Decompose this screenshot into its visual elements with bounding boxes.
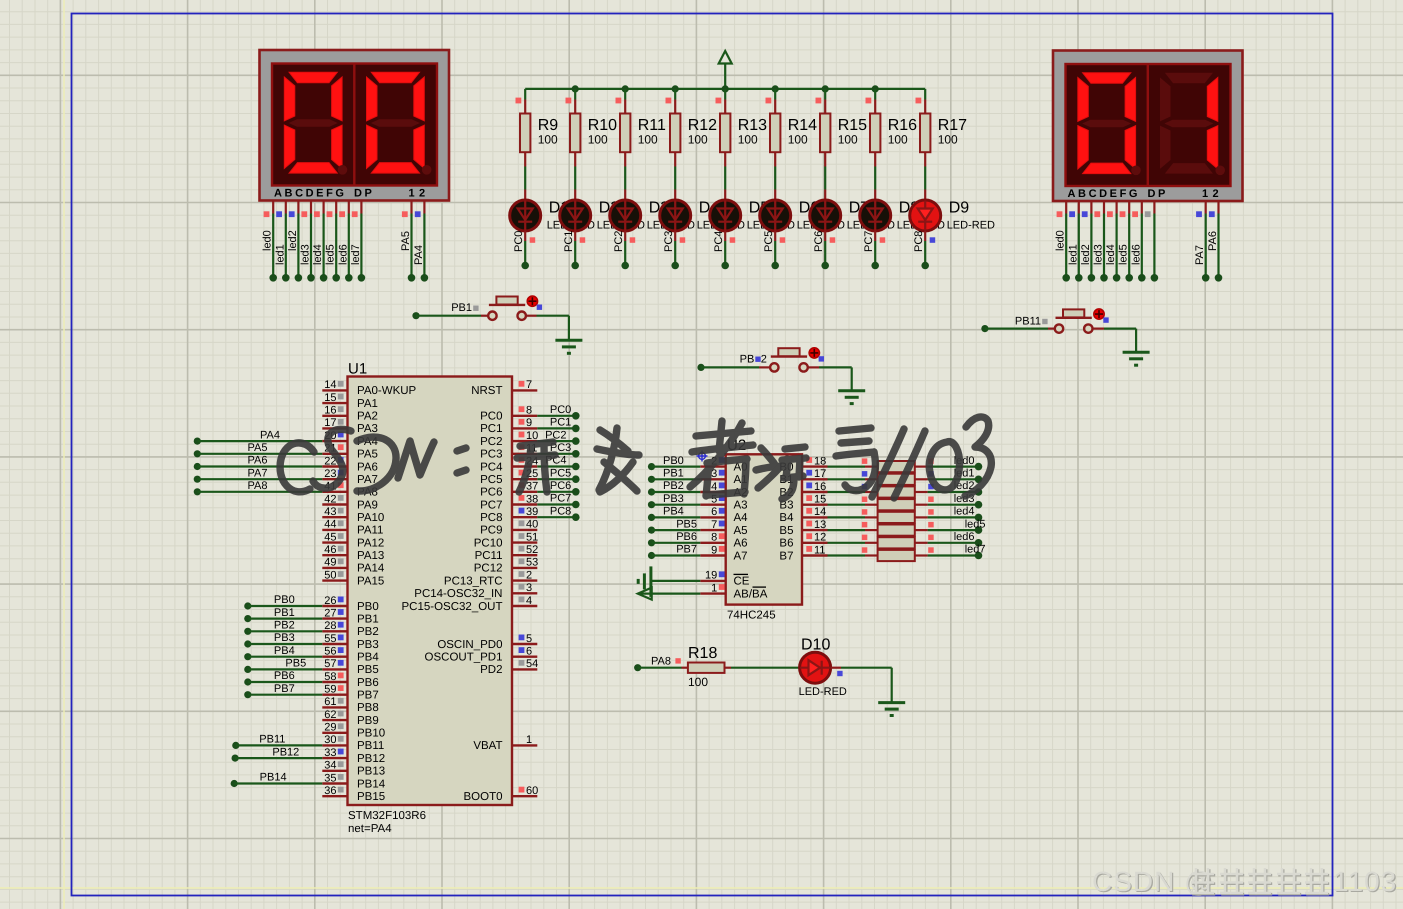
svg-text:PA11: PA11 [357,525,383,537]
svg-text:17: 17 [814,468,826,480]
svg-text:42: 42 [324,493,336,505]
svg-text:100: 100 [588,133,608,147]
wire LED D9 cathode to terminal PC8 [913,231,935,270]
wire button 2 to ground [807,367,851,390]
svg-text:PC7: PC7 [863,231,875,252]
svg-text:9: 9 [711,544,717,556]
resistor R16 100 [866,89,918,167]
wire DS2 pin 9 (PA7) [1194,201,1209,282]
wire U2 A3 to net PB3 [648,493,700,508]
U1 pin 27 (PB1) [322,607,378,625]
svg-text:8: 8 [711,532,717,544]
U1 pin 57 (PB5) [322,658,378,676]
svg-text:led4: led4 [954,506,975,518]
svg-text:28: 28 [324,620,336,632]
wire DS2 pin 10 (PA6) [1207,201,1222,282]
U2 pin 15 (B3) [779,494,827,512]
svg-text:ABCDEFG: ABCDEFG [1068,188,1141,200]
svg-text:led5: led5 [325,244,337,265]
svg-text:led7: led7 [350,244,362,265]
svg-text:2: 2 [761,354,767,366]
U2 pin 5 (A3) [700,494,747,512]
U1 pin 14 (PA0-WKUP) [322,379,416,397]
svg-text:100: 100 [638,133,658,147]
label for LED D4 [697,200,745,232]
U1 pin 25 (PC5) [480,468,538,486]
U1 pin 58 (PB6) [322,671,378,689]
svg-text:PC8: PC8 [480,512,502,524]
svg-text:PB2: PB2 [274,620,295,632]
wire DS2 pin 5 (led4) [1105,201,1120,282]
svg-text:PB6: PB6 [676,531,697,543]
svg-text:PC8: PC8 [550,505,571,517]
resistor (series B0-led0) [828,458,928,472]
wire resistor to terminal led6 [928,531,983,547]
U1 pin 61 (PB8) [322,696,378,714]
wire terminal PA8 to R18 [634,656,681,672]
svg-text:PA8: PA8 [248,480,268,492]
wire LED D4 cathode to terminal PC3 [663,231,685,270]
LED D5 LED-RED [710,167,741,232]
wire U1 PC8 to terminal [537,505,579,521]
U1 pin 24 (PC4) [480,455,538,473]
wire U1 PB0 to terminal [244,594,322,609]
svg-text:led0: led0 [1055,230,1067,251]
U1 pin 35 (PB14) [322,772,385,790]
svg-text:PB6: PB6 [357,677,379,689]
wire DS1 pin 3 (led2) [287,201,302,282]
svg-text:NRST: NRST [471,385,502,397]
svg-text:U1: U1 [348,361,367,378]
svg-text:PA6: PA6 [1207,231,1219,251]
svg-text:R9: R9 [538,117,559,134]
U1 pin 8 (PC0) [480,405,537,423]
svg-text:VBAT: VBAT [473,740,502,752]
svg-text:BOOT0: BOOT0 [464,791,503,803]
LED D8 LED-RED [860,167,891,232]
U1 pin 15 (PA1) [322,392,378,410]
wire U2 A2 to net PB2 [648,480,700,495]
svg-text:74HC245: 74HC245 [727,610,776,622]
wire to push button 3 (net PB11) [981,325,1055,332]
wire DS1 pin 1 (led0) [262,201,277,282]
U2 pin 4 (A2) [700,481,747,499]
U1 pin 41 (PA8) [322,481,378,499]
U1 pin 62 (PB9) [322,709,378,727]
U2 pin 9 (A7) [700,544,747,562]
wire VCC rail [525,88,925,90]
U2 pin 6 (A4) [700,506,748,524]
LED D10 LED-RED (lit) [799,637,847,699]
U1 pin 51 (PC10) [474,531,539,549]
svg-text:PB2: PB2 [663,480,684,492]
svg-text:PC4: PC4 [480,461,503,473]
label for LED D3 [647,200,695,232]
U1 pin 16 (PA2) [322,405,378,423]
svg-text:15: 15 [324,392,336,404]
svg-text:PA1: PA1 [357,398,378,410]
resistor (series B2-led2) [828,484,928,498]
svg-text:62: 62 [324,709,336,721]
wire DS1 pin 8 (led7) [350,201,365,282]
U1 pin 60 (BOOT0) [464,785,539,803]
svg-text:OSCOUT_PD1: OSCOUT_PD1 [425,652,503,664]
LED D4 LED-RED [660,167,691,232]
svg-text:PB1: PB1 [274,607,295,619]
svg-text:PB7: PB7 [274,683,295,695]
svg-text:16: 16 [814,481,826,493]
wire resistor to terminal led0 [928,455,983,471]
wire DS2 pin 2 (led1) [1067,201,1082,282]
svg-text:14: 14 [814,506,826,518]
wire LED D8 cathode to terminal PC7 [863,231,885,270]
U1 pin 22 (PA6) [322,455,378,473]
svg-text:54: 54 [526,658,538,670]
wire LED D7 cathode to terminal PC6 [813,231,835,270]
resistor (series B6-led6) [828,535,928,549]
U1 pin 21 (PA5) [322,443,378,461]
svg-text:LED-RED: LED-RED [947,220,995,232]
svg-text:PA4: PA4 [413,245,425,265]
svg-text:PB: PB [740,354,755,366]
wire U2 A0 to net PB0 [648,455,700,470]
svg-text:PB1: PB1 [357,613,379,625]
wire U1 PA6 to terminal [194,455,323,470]
resistor R11 100 [616,89,666,167]
resistor (series B1-led1) [828,471,928,485]
wire U1 PC6 to terminal [537,480,579,496]
U1 pin 40 (PC9) [480,519,538,537]
U1 pin 53 (PC12) [474,557,539,575]
label for LED D8 [897,200,945,232]
resistor R18 100 [682,645,732,689]
U1 pin 10 (PC2) [480,430,538,448]
U2 pin 7 (A5) [700,519,747,537]
svg-text:1: 1 [711,582,717,594]
svg-text:led4: led4 [1105,244,1117,265]
wire U1 PB7 to terminal [244,683,322,698]
svg-text:PB5: PB5 [357,664,379,676]
resistor R10 100 [566,89,618,167]
svg-text:STM32F103R6: STM32F103R6 [348,810,426,822]
svg-text:led2: led2 [1080,244,1092,265]
wire U1 PB6 to terminal [244,670,322,685]
svg-text:57: 57 [324,658,336,670]
svg-text:PB5: PB5 [285,658,306,670]
svg-text:45: 45 [324,531,336,543]
svg-text:1: 1 [526,734,532,746]
svg-text:PC7: PC7 [480,499,502,511]
svg-text:PB15: PB15 [357,791,385,803]
svg-text:33: 33 [324,747,336,759]
svg-text:PB3: PB3 [663,493,684,505]
svg-text:18: 18 [814,455,826,467]
svg-text:PC3: PC3 [480,449,502,461]
U1 pin 9 (PC1) [480,417,537,435]
U1 pin 7 (NRST) [471,379,537,397]
svg-text:2: 2 [526,569,532,581]
svg-text:PB12: PB12 [272,746,299,758]
wire LED D5 cathode to terminal PC4 [713,231,735,270]
svg-text:DP: DP [1148,188,1168,200]
svg-text:A5: A5 [734,525,748,537]
label for LED D9 [947,200,995,232]
svg-text:led6: led6 [1130,244,1142,265]
svg-text:CE: CE [734,576,750,588]
U1 pin 46 (PA13) [322,544,384,562]
svg-text:100: 100 [738,133,758,147]
U1 pin 55 (PB3) [322,633,378,651]
svg-text:PA8: PA8 [651,656,671,668]
U1 pin 52 (PC11) [475,544,539,562]
junction node on VCC rail [622,85,629,92]
U1 pin 54 (PD2) [480,658,538,676]
wire U1 PC3 to terminal [537,442,579,458]
svg-text:PB11: PB11 [1015,316,1041,328]
svg-text:6: 6 [526,646,532,658]
svg-text:D9: D9 [949,200,970,217]
wire LED D2 cathode to terminal PC1 [563,231,585,270]
svg-text:60: 60 [526,785,538,797]
U1 pin 34 (PB13) [322,760,385,778]
svg-text:2: 2 [1213,188,1219,200]
svg-text:39: 39 [526,506,538,518]
svg-text:2: 2 [419,188,425,200]
svg-text:PC12: PC12 [474,563,503,575]
wire resistor to terminal led1 [928,468,983,484]
wire DS2 pin 3 (led2) [1080,201,1095,282]
wire U1 PC2 to terminal [537,429,579,445]
svg-text:PA7: PA7 [1194,245,1206,265]
U1 pin 23 (PA7) [322,468,378,486]
U2 pin 13 (B5) [779,519,827,537]
svg-text:6: 6 [711,506,717,518]
LED D1 LED-RED [510,167,541,232]
svg-text:R13: R13 [738,117,767,134]
svg-text:PB8: PB8 [357,702,379,714]
wire U1 PB3 to terminal [244,632,322,647]
U1 pin 2 (PC13_RTC) [444,569,537,587]
svg-text:53: 53 [526,557,538,569]
svg-text:30: 30 [324,734,336,746]
LED D3 LED-RED [610,167,641,232]
U1 pin 4 (PC15-OSC32_OUT) [402,595,538,613]
svg-text:PB1: PB1 [663,468,684,480]
wire button 3 to ground [1092,329,1136,353]
svg-text:10: 10 [526,430,538,442]
svg-text:PB11: PB11 [259,734,285,746]
svg-text:led5: led5 [965,518,986,530]
wire U1 PB14 to terminal [231,772,323,787]
wire DS1 pin 6 (led5) [325,201,340,282]
svg-text:16: 16 [324,405,336,417]
svg-text:PA14: PA14 [357,563,385,575]
svg-text:61: 61 [324,696,336,708]
wire DS2 pin 8 (nc) [1145,201,1158,282]
U1 pin 56 (PB4) [322,646,379,664]
svg-text:37: 37 [526,481,538,493]
svg-text:52: 52 [526,544,538,556]
wire DS2 pin 4 (led3) [1093,201,1108,282]
ground symbol (rotated) on CE [638,566,651,597]
svg-text:PB6: PB6 [274,670,295,682]
junction node on VCC rail [672,85,679,92]
label for LED D7 [847,200,895,232]
svg-text:9: 9 [526,417,532,429]
svg-text:OSCIN_PD0: OSCIN_PD0 [437,639,502,651]
IC U1 STM32F103R6 body [348,361,513,836]
svg-text:net=PA4: net=PA4 [348,823,392,835]
svg-text:PC6: PC6 [480,487,502,499]
net label PB11 + state square [1015,316,1048,328]
wire LED D6 cathode to terminal PC5 [763,231,785,270]
wire U1 PC7 to terminal [537,493,579,509]
svg-text:PB11: PB11 [357,740,384,752]
svg-text:40: 40 [526,519,538,531]
wire U2 A6 to net PB6 [648,531,700,546]
resistor R13 100 [716,89,768,167]
svg-text:29: 29 [324,722,336,734]
svg-text:R12: R12 [688,117,717,134]
U1 pin 1 (VBAT) [473,734,537,752]
U1 pin 49 (PA14) [322,557,385,575]
ground symbol below button 2 [838,391,865,404]
svg-text:led5: led5 [1118,244,1130,265]
svg-text:PC8: PC8 [913,231,925,252]
wire resistor to terminal led4 [928,506,983,522]
svg-text:led3: led3 [300,244,312,265]
svg-text:R16: R16 [888,117,917,134]
U1 pin 30 (PB11) [322,734,384,752]
U2 pin 16 (B2) [779,481,827,499]
svg-text:43: 43 [324,506,336,518]
resistor (series B5-led5) [828,522,928,536]
push button 2 [770,348,824,372]
svg-text:100: 100 [788,133,808,147]
wire U1 PA7 to terminal [194,467,323,482]
wire U1 PA5 to terminal [194,442,323,457]
U2 pin 11 (B7) [779,544,827,562]
wire LED D3 cathode to terminal PC2 [613,231,635,270]
svg-text:7: 7 [711,519,717,531]
svg-text:38: 38 [526,493,538,505]
svg-text:PA5: PA5 [357,449,378,461]
wire resistor to terminal led2 [928,480,983,496]
svg-text:4: 4 [526,595,532,607]
wire U2 A1 to net PB1 [648,468,700,483]
svg-text:PA5: PA5 [400,231,412,251]
wire U1 PB2 to terminal [244,620,322,635]
U2 pin 2 (A0) [700,455,747,473]
svg-text:51: 51 [526,531,538,543]
junction node on VCC rail [772,85,779,92]
svg-text:PB14: PB14 [260,772,287,784]
wire U1 PA4 to terminal [194,429,323,444]
svg-text:PD2: PD2 [480,664,502,676]
wire resistor to terminal led3 [928,493,983,509]
svg-text:36: 36 [324,785,336,797]
wire U1 PB1 to terminal [244,607,322,622]
label for LED D1 [547,200,595,232]
wire to push button 1 (net PB1x) [412,312,488,319]
svg-text:14: 14 [324,379,336,391]
U1 pin 28 (PB2) [322,620,378,638]
wire U1 PC4 to terminal [537,455,579,471]
svg-text:D10: D10 [801,637,830,654]
svg-text:PB0: PB0 [663,455,684,467]
U2 pin 14 (B4) [779,506,827,524]
svg-text:PA5: PA5 [248,442,268,454]
net label PB12 + state square [740,354,767,366]
LED D6 LED-RED [760,167,791,232]
svg-text:100: 100 [688,133,708,147]
resistor R15 100 [816,89,868,167]
U2 pin 18 (B0) [779,455,827,473]
svg-text:PB3: PB3 [274,632,295,644]
svg-text:PA4: PA4 [260,429,280,441]
svg-text:1: 1 [1202,188,1208,200]
resistor R9 100 [516,89,559,167]
wire LED D1 cathode to terminal PC0 [513,231,535,270]
svg-text:R15: R15 [838,117,867,134]
svg-text:23: 23 [324,468,336,480]
svg-text:PC11: PC11 [475,550,503,562]
svg-text:12: 12 [814,532,826,544]
svg-text:3: 3 [526,582,532,594]
resistor (series B4-led4) [828,509,928,523]
svg-text:PA10: PA10 [357,512,384,524]
svg-text:PC0: PC0 [550,404,571,416]
watermark CSDN bottom-right (decorative) [1092,866,1398,898]
svg-text:PB7: PB7 [676,544,697,556]
svg-text:DP: DP [354,188,374,200]
svg-text:44: 44 [324,519,336,531]
wire U1 PB4 to terminal [244,645,322,660]
svg-text:PC5: PC5 [480,474,502,486]
svg-text:led6: led6 [337,244,349,265]
svg-text:PA6: PA6 [248,455,268,467]
svg-text:100: 100 [688,675,708,689]
svg-text:PB9: PB9 [357,715,379,727]
svg-text:PC1: PC1 [550,417,571,429]
svg-text:PB12: PB12 [357,753,385,765]
ground symbol below D10 [878,703,905,716]
svg-text:PC6: PC6 [550,480,571,492]
U1 pin 5 (OSCIN_PD0) [437,633,537,651]
svg-text:PC9: PC9 [480,525,502,537]
svg-text:PA12: PA12 [357,537,384,549]
label for LED D6 [797,200,845,232]
U2 pin 3 (A1) [700,468,747,486]
svg-text:15: 15 [814,494,826,506]
label for LED D5 [747,200,795,232]
svg-text:59: 59 [324,684,336,696]
svg-text:46: 46 [324,544,336,556]
svg-text:R17: R17 [938,117,967,134]
svg-text:100: 100 [838,133,858,147]
svg-text:100: 100 [888,133,908,147]
svg-text:PC14-OSC32_IN: PC14-OSC32_IN [414,588,502,600]
svg-text:PB0: PB0 [274,594,295,606]
svg-text:PB5: PB5 [676,518,697,530]
wire resistor to terminal led5 [928,518,986,534]
wire R18 to D10 [731,667,800,669]
U2 pin 19 (CE, active low) [700,570,750,588]
svg-text:100: 100 [538,133,558,147]
U1 pin 37 (PC6) [480,481,538,499]
wire DS2 pin 1 (led0) [1055,201,1070,282]
U1 pin 6 (OSCOUT_PD1) [425,646,538,664]
